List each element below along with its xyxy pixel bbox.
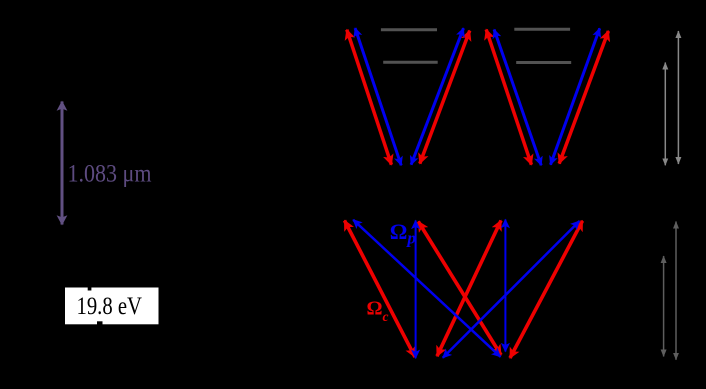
svg-text:19.8 eV: 19.8 eV bbox=[77, 293, 143, 320]
svg-text:1.083 μm: 1.083 μm bbox=[68, 161, 152, 188]
